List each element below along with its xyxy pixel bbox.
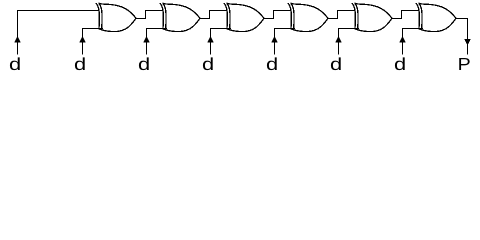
wire d4 to U3 lower input (210, 28, 231, 30)
wire U4 output to U5 top input (328, 11, 356, 19)
wire d2 stub vertical (82, 29, 84, 55)
XOR gate U2 (160, 3, 200, 32)
wire U1 output to U2 top input (136, 11, 164, 19)
wire d1 stub vertical (17, 11, 19, 55)
wire U3 output to U4 top input (264, 11, 292, 19)
XOR gate U4 (288, 3, 328, 32)
XOR gate U1 (96, 3, 136, 32)
wire U2 output to U3 top input (200, 11, 228, 19)
wire d3 stub vertical (146, 29, 148, 55)
arrowhead d2 (79, 36, 85, 42)
svg-text:d: d (330, 54, 342, 74)
svg-text:P: P (458, 54, 471, 74)
wire d6 stub vertical (338, 29, 340, 55)
wire U6 output to P corner (456, 19, 468, 20)
arrowhead P output (down) (464, 39, 470, 45)
svg-text:d: d (9, 54, 21, 74)
wire d2 to U1 lower input (82, 28, 103, 30)
wire d6 to U5 lower input (338, 28, 359, 30)
wire d4 stub vertical (210, 29, 212, 55)
arrowhead d6 (335, 36, 341, 42)
svg-text:d: d (138, 54, 150, 74)
wire d1 top run to U1 (17, 10, 100, 12)
svg-text:d: d (266, 54, 278, 74)
wire U5 output to U6 top input (392, 11, 420, 19)
arrowhead d4 (207, 36, 213, 42)
XOR gate U3 (224, 3, 264, 32)
arrowhead d5 (271, 36, 277, 42)
wire d7 to U6 lower input (402, 28, 423, 30)
svg-text:d: d (202, 54, 214, 74)
arrowhead d7 (399, 36, 405, 42)
arrowhead d3 (143, 36, 149, 42)
arrowhead d1 (14, 36, 20, 42)
svg-text:d: d (74, 54, 86, 74)
wire d5 to U4 lower input (274, 28, 295, 30)
svg-text:d: d (394, 54, 406, 74)
XOR gate U6 (416, 3, 456, 32)
wire d5 stub vertical (274, 29, 276, 55)
wire d7 stub vertical (402, 29, 404, 55)
wire P stub vertical (467, 19, 469, 55)
wire d3 to U2 lower input (146, 28, 167, 30)
XOR gate U5 (352, 3, 392, 32)
